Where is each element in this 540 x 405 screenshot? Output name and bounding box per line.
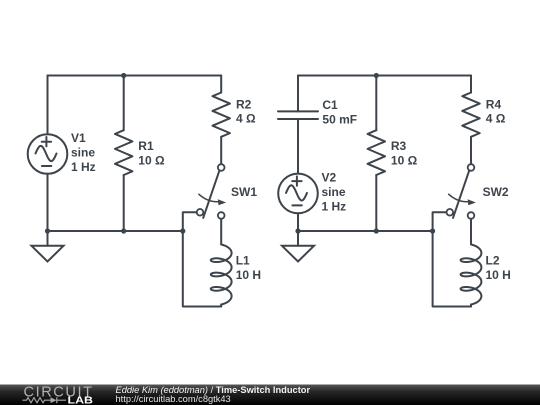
- logo diode: [51, 397, 57, 403]
- node top junction: [121, 73, 126, 78]
- wire switch to inductor: [470, 219, 472, 244]
- wire right top: [220, 76, 222, 93]
- wire cap to V2: [297, 119, 299, 174]
- wire source top: [297, 76, 299, 112]
- wire inductor bottom: [470, 305, 472, 307]
- wire top rail A: [48, 75, 222, 77]
- node gnd junction: [45, 228, 50, 233]
- wire source bottom: [47, 174, 49, 231]
- switch SW1: [197, 164, 258, 219]
- wire bottom rail: [298, 230, 433, 232]
- node gnd junction: [295, 228, 300, 233]
- svg-text:L2: L2: [486, 254, 500, 268]
- svg-text:1 Hz: 1 Hz: [71, 160, 96, 174]
- svg-text:V2: V2: [322, 170, 337, 184]
- svg-text:50 mF: 50 mF: [322, 112, 357, 126]
- svg-text:R4: R4: [486, 98, 502, 112]
- wire top rail B: [298, 75, 471, 77]
- svg-text:R2: R2: [236, 98, 252, 112]
- ground: [282, 231, 314, 262]
- svg-text:V1: V1: [71, 131, 86, 145]
- resistor R3: [368, 130, 418, 175]
- voltage source V1: [28, 131, 96, 174]
- svg-text:R3: R3: [391, 139, 407, 153]
- resistor R4: [462, 93, 506, 137]
- wire right top: [470, 76, 472, 93]
- wire switch to inductor: [220, 219, 222, 244]
- svg-text:10 Ω: 10 Ω: [391, 153, 418, 167]
- wire switch throw to rail: [433, 212, 471, 306]
- resistor R1: [115, 130, 165, 175]
- svg-text:10 H: 10 H: [486, 268, 511, 282]
- ground: [32, 231, 64, 262]
- switch SW2: [447, 164, 509, 219]
- inductor L1: [211, 245, 261, 305]
- wire resistor to switch: [220, 137, 222, 164]
- svg-text:C1: C1: [322, 98, 338, 112]
- wire mid bottom: [123, 175, 125, 231]
- wire mid top: [375, 76, 377, 131]
- wire bottom rail: [48, 230, 183, 232]
- svg-text:SW2: SW2: [483, 185, 509, 199]
- voltage source V2: [278, 170, 346, 213]
- node switch junction: [180, 228, 185, 233]
- svg-text:10 Ω: 10 Ω: [138, 153, 165, 167]
- node switch junction: [430, 228, 435, 233]
- svg-text:sine: sine: [322, 185, 346, 199]
- wire resistor to switch: [470, 137, 472, 164]
- node mid junction: [374, 228, 379, 233]
- capacitor C1: [278, 98, 357, 126]
- wire mid top: [123, 76, 125, 131]
- svg-text:L1: L1: [236, 254, 250, 268]
- svg-text:1 Hz: 1 Hz: [322, 199, 347, 213]
- resistor R2: [213, 93, 257, 137]
- wire inductor bottom: [220, 305, 222, 307]
- logo resistor squiggle: [23, 398, 51, 403]
- svg-text:4 Ω: 4 Ω: [236, 112, 256, 126]
- inductor L2: [461, 245, 511, 305]
- svg-text:http://circuitlab.com/c8gtk43: http://circuitlab.com/c8gtk43: [116, 394, 231, 404]
- footer bar: [0, 385, 540, 405]
- svg-text:4 Ω: 4 Ω: [486, 112, 506, 126]
- svg-text:R1: R1: [138, 139, 154, 153]
- svg-text:10 H: 10 H: [236, 268, 261, 282]
- node mid junction: [121, 228, 126, 233]
- wire source top: [47, 76, 49, 135]
- wire switch throw to rail: [183, 212, 221, 306]
- svg-text:LAB: LAB: [68, 395, 94, 405]
- wire mid bottom: [375, 175, 377, 231]
- node top junction: [374, 73, 379, 78]
- svg-text:SW1: SW1: [231, 185, 257, 199]
- wire source bottom: [297, 213, 299, 231]
- svg-text:sine: sine: [71, 146, 95, 160]
